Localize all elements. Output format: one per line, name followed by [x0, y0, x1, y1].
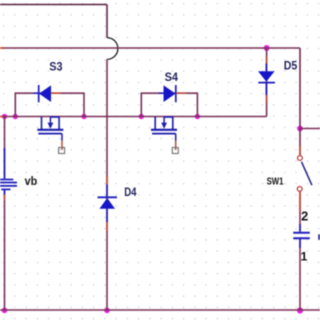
- battery vb: [0, 148, 17, 201]
- diode D4: [98, 177, 118, 232]
- capacitor: [293, 224, 310, 248]
- svg-text:vb: vb: [25, 174, 38, 188]
- wire S4 loop: [141, 93, 197, 116]
- wire left column: [4, 117, 6, 311]
- wire right stub: [300, 128, 320, 130]
- wire bottom rail: [0, 309, 320, 311]
- svg-text:S3: S3: [49, 59, 62, 73]
- junction node bottom right: [297, 307, 303, 313]
- off-page stub left at second rail: [0, 47, 3, 49]
- wire mid rail: [0, 116, 267, 118]
- diode D5: [258, 57, 275, 104]
- wire hop arc: [107, 38, 118, 60]
- mosfet S3: [37, 117, 63, 150]
- junction node left-mid: [2, 114, 7, 119]
- gate port square S4: [172, 148, 178, 154]
- junction node right stub: [297, 126, 303, 132]
- diode S4 body: [159, 85, 187, 102]
- switch SW1: [297, 146, 312, 212]
- wire right column lower: [299, 192, 301, 311]
- svg-text:2: 2: [301, 208, 308, 223]
- wire second rail: [0, 47, 300, 49]
- wire center vertical: [106, 59, 108, 310]
- wire top rail drop: [106, 5, 108, 38]
- junction node S4 left: [139, 114, 144, 119]
- junction node bottom left: [2, 308, 8, 314]
- junction node S4 right: [195, 114, 200, 119]
- junction node D5 top: [264, 45, 270, 51]
- wire D5 branch: [266, 48, 268, 117]
- svg-text:SW1: SW1: [267, 176, 284, 187]
- junction node bottom center: [104, 308, 110, 314]
- gate port square S3: [59, 148, 65, 154]
- mosfet S4: [151, 117, 177, 150]
- wire top rail: [0, 4, 107, 6]
- off-page stub left at mid rail: [0, 116, 3, 118]
- svg-text:1: 1: [301, 249, 308, 263]
- wire S3 loop: [15, 93, 84, 116]
- wire right column upper: [299, 48, 301, 155]
- svg-text:S4: S4: [165, 70, 178, 84]
- svg-text:D4: D4: [124, 185, 137, 199]
- junction node S3 left: [13, 114, 18, 119]
- diode S3 body: [34, 85, 61, 102]
- junction node S3 right: [81, 114, 86, 119]
- svg-text:D5: D5: [284, 59, 298, 73]
- capacitor clipped label fragment: [318, 234, 320, 239]
